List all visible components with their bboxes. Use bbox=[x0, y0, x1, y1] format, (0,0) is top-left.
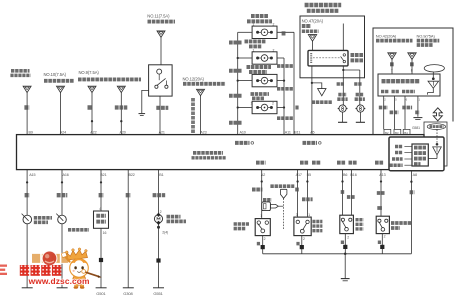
svg-text:B9: B9 bbox=[29, 131, 33, 135]
svg-text:4: 4 bbox=[99, 207, 101, 211]
svg-text:NO.10(7.5A): NO.10(7.5A) bbox=[44, 72, 67, 77]
svg-text:A21: A21 bbox=[159, 131, 165, 135]
svg-text:A15: A15 bbox=[29, 173, 35, 177]
svg-text:G308: G308 bbox=[123, 291, 133, 296]
svg-text:1: 1 bbox=[253, 48, 255, 52]
svg-text:G551: G551 bbox=[153, 291, 163, 296]
svg-text:A8: A8 bbox=[413, 173, 417, 177]
svg-text:NO.42(20A): NO.42(20A) bbox=[376, 34, 397, 39]
svg-text:1: 1 bbox=[251, 102, 253, 106]
svg-text:A24: A24 bbox=[60, 131, 66, 135]
svg-text:16: 16 bbox=[103, 231, 107, 235]
svg-text:B1: B1 bbox=[159, 173, 163, 177]
svg-text:www.dzsc.com: www.dzsc.com bbox=[28, 276, 90, 286]
svg-text:A20: A20 bbox=[120, 131, 126, 135]
svg-text:A13: A13 bbox=[379, 173, 385, 177]
svg-text:A5: A5 bbox=[310, 131, 314, 135]
svg-text:2: 2 bbox=[273, 22, 275, 26]
svg-text:A16: A16 bbox=[63, 173, 69, 177]
svg-text:1: 1 bbox=[308, 213, 310, 217]
svg-text:B11: B11 bbox=[294, 131, 300, 135]
svg-text:1: 1 bbox=[260, 214, 262, 218]
svg-text:A11: A11 bbox=[285, 131, 291, 135]
svg-text:3: 3 bbox=[296, 213, 298, 217]
svg-text:NO.9(75A): NO.9(75A) bbox=[417, 34, 436, 39]
svg-text:NO.47(20A): NO.47(20A) bbox=[302, 18, 324, 23]
svg-text:2: 2 bbox=[384, 234, 386, 238]
svg-text:1: 1 bbox=[253, 22, 255, 26]
svg-text:2: 2 bbox=[273, 48, 275, 52]
svg-text:2: 2 bbox=[272, 102, 274, 106]
svg-text:2: 2 bbox=[160, 210, 162, 214]
svg-text:NO.9(7.5A): NO.9(7.5A) bbox=[79, 70, 100, 75]
svg-text:2: 2 bbox=[303, 237, 305, 241]
svg-text:A22: A22 bbox=[90, 131, 96, 135]
svg-text:NO.11(7.5A): NO.11(7.5A) bbox=[147, 13, 170, 18]
svg-text:2: 2 bbox=[264, 237, 266, 241]
svg-text:G581: G581 bbox=[412, 126, 420, 130]
svg-text:B22: B22 bbox=[129, 173, 135, 177]
svg-text:NO.12(20A): NO.12(20A) bbox=[183, 77, 205, 82]
svg-text:A10: A10 bbox=[240, 131, 246, 135]
svg-text:B6: B6 bbox=[343, 173, 347, 177]
svg-text:A23: A23 bbox=[200, 131, 206, 135]
svg-text:2(4): 2(4) bbox=[162, 230, 168, 234]
svg-text:2: 2 bbox=[347, 235, 349, 239]
svg-text:G501: G501 bbox=[96, 291, 106, 296]
svg-text:A17: A17 bbox=[296, 173, 302, 177]
